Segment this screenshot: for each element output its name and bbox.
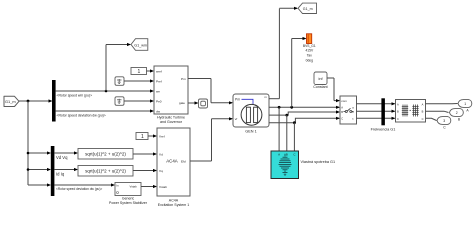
wire transformer to port B	[426, 111, 449, 112]
wire breaker to bus bar phase B	[357, 110, 396, 113]
synchronous machine GEN 1	[233, 94, 269, 133]
From tag G1_m (left input)	[4, 96, 19, 106]
Hydraulic Turbine and Governor block U1	[154, 66, 188, 124]
signal label Rotor speed deviation (lower)	[56, 187, 102, 191]
svg-text:C: C	[397, 117, 399, 121]
svg-text:we: we	[156, 89, 160, 93]
constant 1 (Vref)	[136, 133, 148, 141]
svg-text:Vstab: Vstab	[159, 185, 167, 189]
wire Vd Vq from lower bus to sqrt1	[54, 151, 78, 154]
svg-text:C: C	[293, 152, 295, 156]
svg-text:Tav: Tav	[307, 54, 312, 58]
svg-text:gate: gate	[179, 101, 185, 105]
svg-text:<Rotor speed deviation dw (p: <Rotor speed deviation dw (pu)>	[57, 113, 106, 117]
svg-text:B: B	[286, 152, 288, 156]
wire tap A down to load	[278, 107, 280, 151]
BVS_G1 measurement block (orange)	[303, 34, 316, 63]
wire wref	[147, 69, 155, 72]
terminator block	[199, 99, 208, 108]
svg-text:Vq: Vq	[159, 169, 163, 173]
svg-text:Vd: Vd	[159, 152, 163, 156]
svg-text:A: A	[278, 152, 280, 156]
svg-text:415V: 415V	[305, 49, 314, 53]
connection port 1 / A	[458, 100, 472, 113]
svg-text:B: B	[397, 110, 399, 114]
svg-text:AC4A: AC4A	[169, 198, 179, 202]
three-phase breaker block	[340, 96, 357, 124]
svg-text:1: 1	[138, 69, 141, 75]
sqrt block 1	[78, 149, 133, 160]
svg-text:Id Iq: Id Iq	[56, 171, 65, 176]
svg-text:Vd Vq: Vd Vq	[56, 155, 68, 160]
svg-text:C: C	[422, 117, 424, 121]
svg-text:vf: vf	[235, 117, 238, 121]
connection port 3 / C	[437, 117, 451, 130]
three-phase transformer block	[396, 100, 426, 123]
wire up to BVS_G1 measurement	[292, 37, 307, 107]
wire Vref constant to AC4A	[148, 134, 157, 137]
svg-text:sqrt(u(1)^2 + u(2)^2): sqrt(u(1)^2 + u(2)^2)	[85, 169, 126, 174]
wire from G1_m tag to upper bus selector	[19, 99, 53, 102]
svg-text:Frekvencia G1: Frekvencia G1	[371, 127, 396, 131]
svg-text:<Rotor speed deviation dw (p: <Rotor speed deviation dw (pu)>	[56, 187, 102, 191]
svg-text:1: 1	[141, 134, 144, 140]
wire phase C row (jogs up after tap)	[269, 117, 340, 123]
ground block (Pe0 source)	[115, 97, 124, 106]
wire PSS Vstab to AC4A	[141, 185, 157, 188]
svg-text:Constant: Constant	[313, 85, 327, 89]
svg-text:Vstab: Vstab	[130, 185, 138, 189]
wire breaker to bus bar phase A	[357, 102, 396, 105]
junction dots on vertical feeder	[27, 152, 30, 171]
svg-text:Pm: Pm	[181, 77, 186, 81]
wire dw to PSS input	[54, 183, 115, 186]
svg-text:GEN 1: GEN 1	[245, 129, 256, 133]
wire gate to terminator	[188, 101, 199, 104]
wire phase B row (jogs up after tap)	[269, 110, 340, 115]
wire tap B down to load	[286, 115, 288, 151]
wire constant to breaker com	[327, 78, 340, 102]
wire phase A row	[269, 106, 340, 109]
constant 1 (wref)	[131, 68, 147, 76]
svg-text:A: A	[422, 102, 424, 106]
junction on wm wire	[105, 90, 108, 93]
goto tag G1_m (top)	[298, 3, 317, 13]
svg-text:<Rotor speed wm (pu)>: <Rotor speed wm (pu)>	[57, 94, 93, 98]
svg-text:Excitation System 1: Excitation System 1	[158, 203, 190, 207]
bus bar Frekvencia G1	[371, 98, 396, 131]
sqrt block 2	[78, 166, 133, 177]
signal label Id Iq	[56, 171, 65, 176]
svg-text:and Governor: and Governor	[160, 120, 183, 124]
wire breaker to bus bar phase C	[357, 117, 396, 120]
wire transformer to port A	[426, 103, 458, 105]
svg-text:sqrt(u(1)^2 + u(2)^2): sqrt(u(1)^2 + u(2)^2)	[85, 152, 126, 157]
svg-text:B: B	[341, 110, 343, 114]
wire down to lower bus selector inputs	[28, 101, 51, 187]
svg-text:com: com	[341, 99, 347, 103]
svg-text:Vref: Vref	[159, 134, 165, 138]
svg-text:Pe0: Pe0	[156, 99, 162, 103]
svg-text:1: 1	[464, 102, 466, 106]
wire Id Iq from lower bus to sqrt2	[54, 168, 78, 171]
wire Efd from AC4A to GEN1 Vf	[190, 117, 233, 161]
signal label Rotor speed wm	[57, 94, 93, 98]
svg-text:Hydraulic Turbine: Hydraulic Turbine	[157, 115, 185, 119]
connection port 2 / B	[450, 109, 464, 122]
svg-text:Vlastná spotreba G1: Vlastná spotreba G1	[301, 160, 336, 164]
svg-text:2: 2	[456, 111, 458, 115]
wire: rotor speed deviation dw to HTG dw input	[56, 109, 154, 112]
wire Pref	[124, 79, 154, 82]
wire sqrt2 to AC4A Vq	[133, 169, 157, 172]
three-phase load (cyan)	[271, 151, 299, 179]
wire: rotor speed wm to HTG we input	[56, 89, 154, 92]
svg-text:3: 3	[443, 119, 445, 123]
junction dots to load taps	[278, 106, 296, 124]
bus selector 1 (upper bar)	[52, 80, 56, 122]
svg-text:Pm: Pm	[235, 98, 240, 102]
wire up to goto tag G1_wm	[106, 43, 131, 91]
svg-text:Generic: Generic	[122, 196, 135, 200]
svg-text:G1_m: G1_m	[5, 99, 16, 104]
wire Pe0	[124, 99, 154, 102]
wire sqrt1 to AC4A Vd	[133, 152, 157, 155]
svg-text:Efd: Efd	[181, 159, 186, 163]
bus selector 2 (lower bar)	[51, 146, 55, 196]
Generic Power System Stabilizer block	[109, 183, 148, 205]
svg-text:G1_m: G1_m	[303, 7, 313, 11]
signal label Rotor speed deviation (upper)	[57, 113, 106, 117]
ground block (Pref source)	[115, 77, 124, 86]
svg-text:G1_wm: G1_wm	[134, 43, 147, 47]
svg-text:B: B	[422, 110, 424, 114]
goto tag G1_wm	[131, 39, 148, 51]
wire m output up to goto tag G1_m	[269, 7, 298, 99]
svg-text:C: C	[341, 117, 343, 121]
svg-text:BVS_G1: BVS_G1	[303, 44, 316, 48]
wire transformer to port C	[426, 118, 437, 120]
wire Pm from HTG to GEN1	[188, 79, 233, 105]
signal label Vd Vq	[56, 155, 68, 160]
svg-text:A: A	[397, 102, 399, 106]
svg-text:AC4A: AC4A	[166, 159, 178, 164]
svg-text:A: A	[341, 106, 343, 110]
svg-text:Pref: Pref	[156, 79, 162, 83]
wire tap C down to load	[293, 123, 295, 151]
constant inf (breaker command)	[313, 72, 327, 89]
label Vlastna spotreba G1	[301, 160, 336, 164]
AC4A Excitation System block U2	[157, 128, 190, 207]
svg-text:wref: wref	[156, 69, 162, 73]
svg-text:0deg: 0deg	[306, 58, 314, 62]
junction on G1_m wire	[27, 100, 30, 103]
svg-text:Power System Stabilizer: Power System Stabilizer	[109, 201, 148, 205]
